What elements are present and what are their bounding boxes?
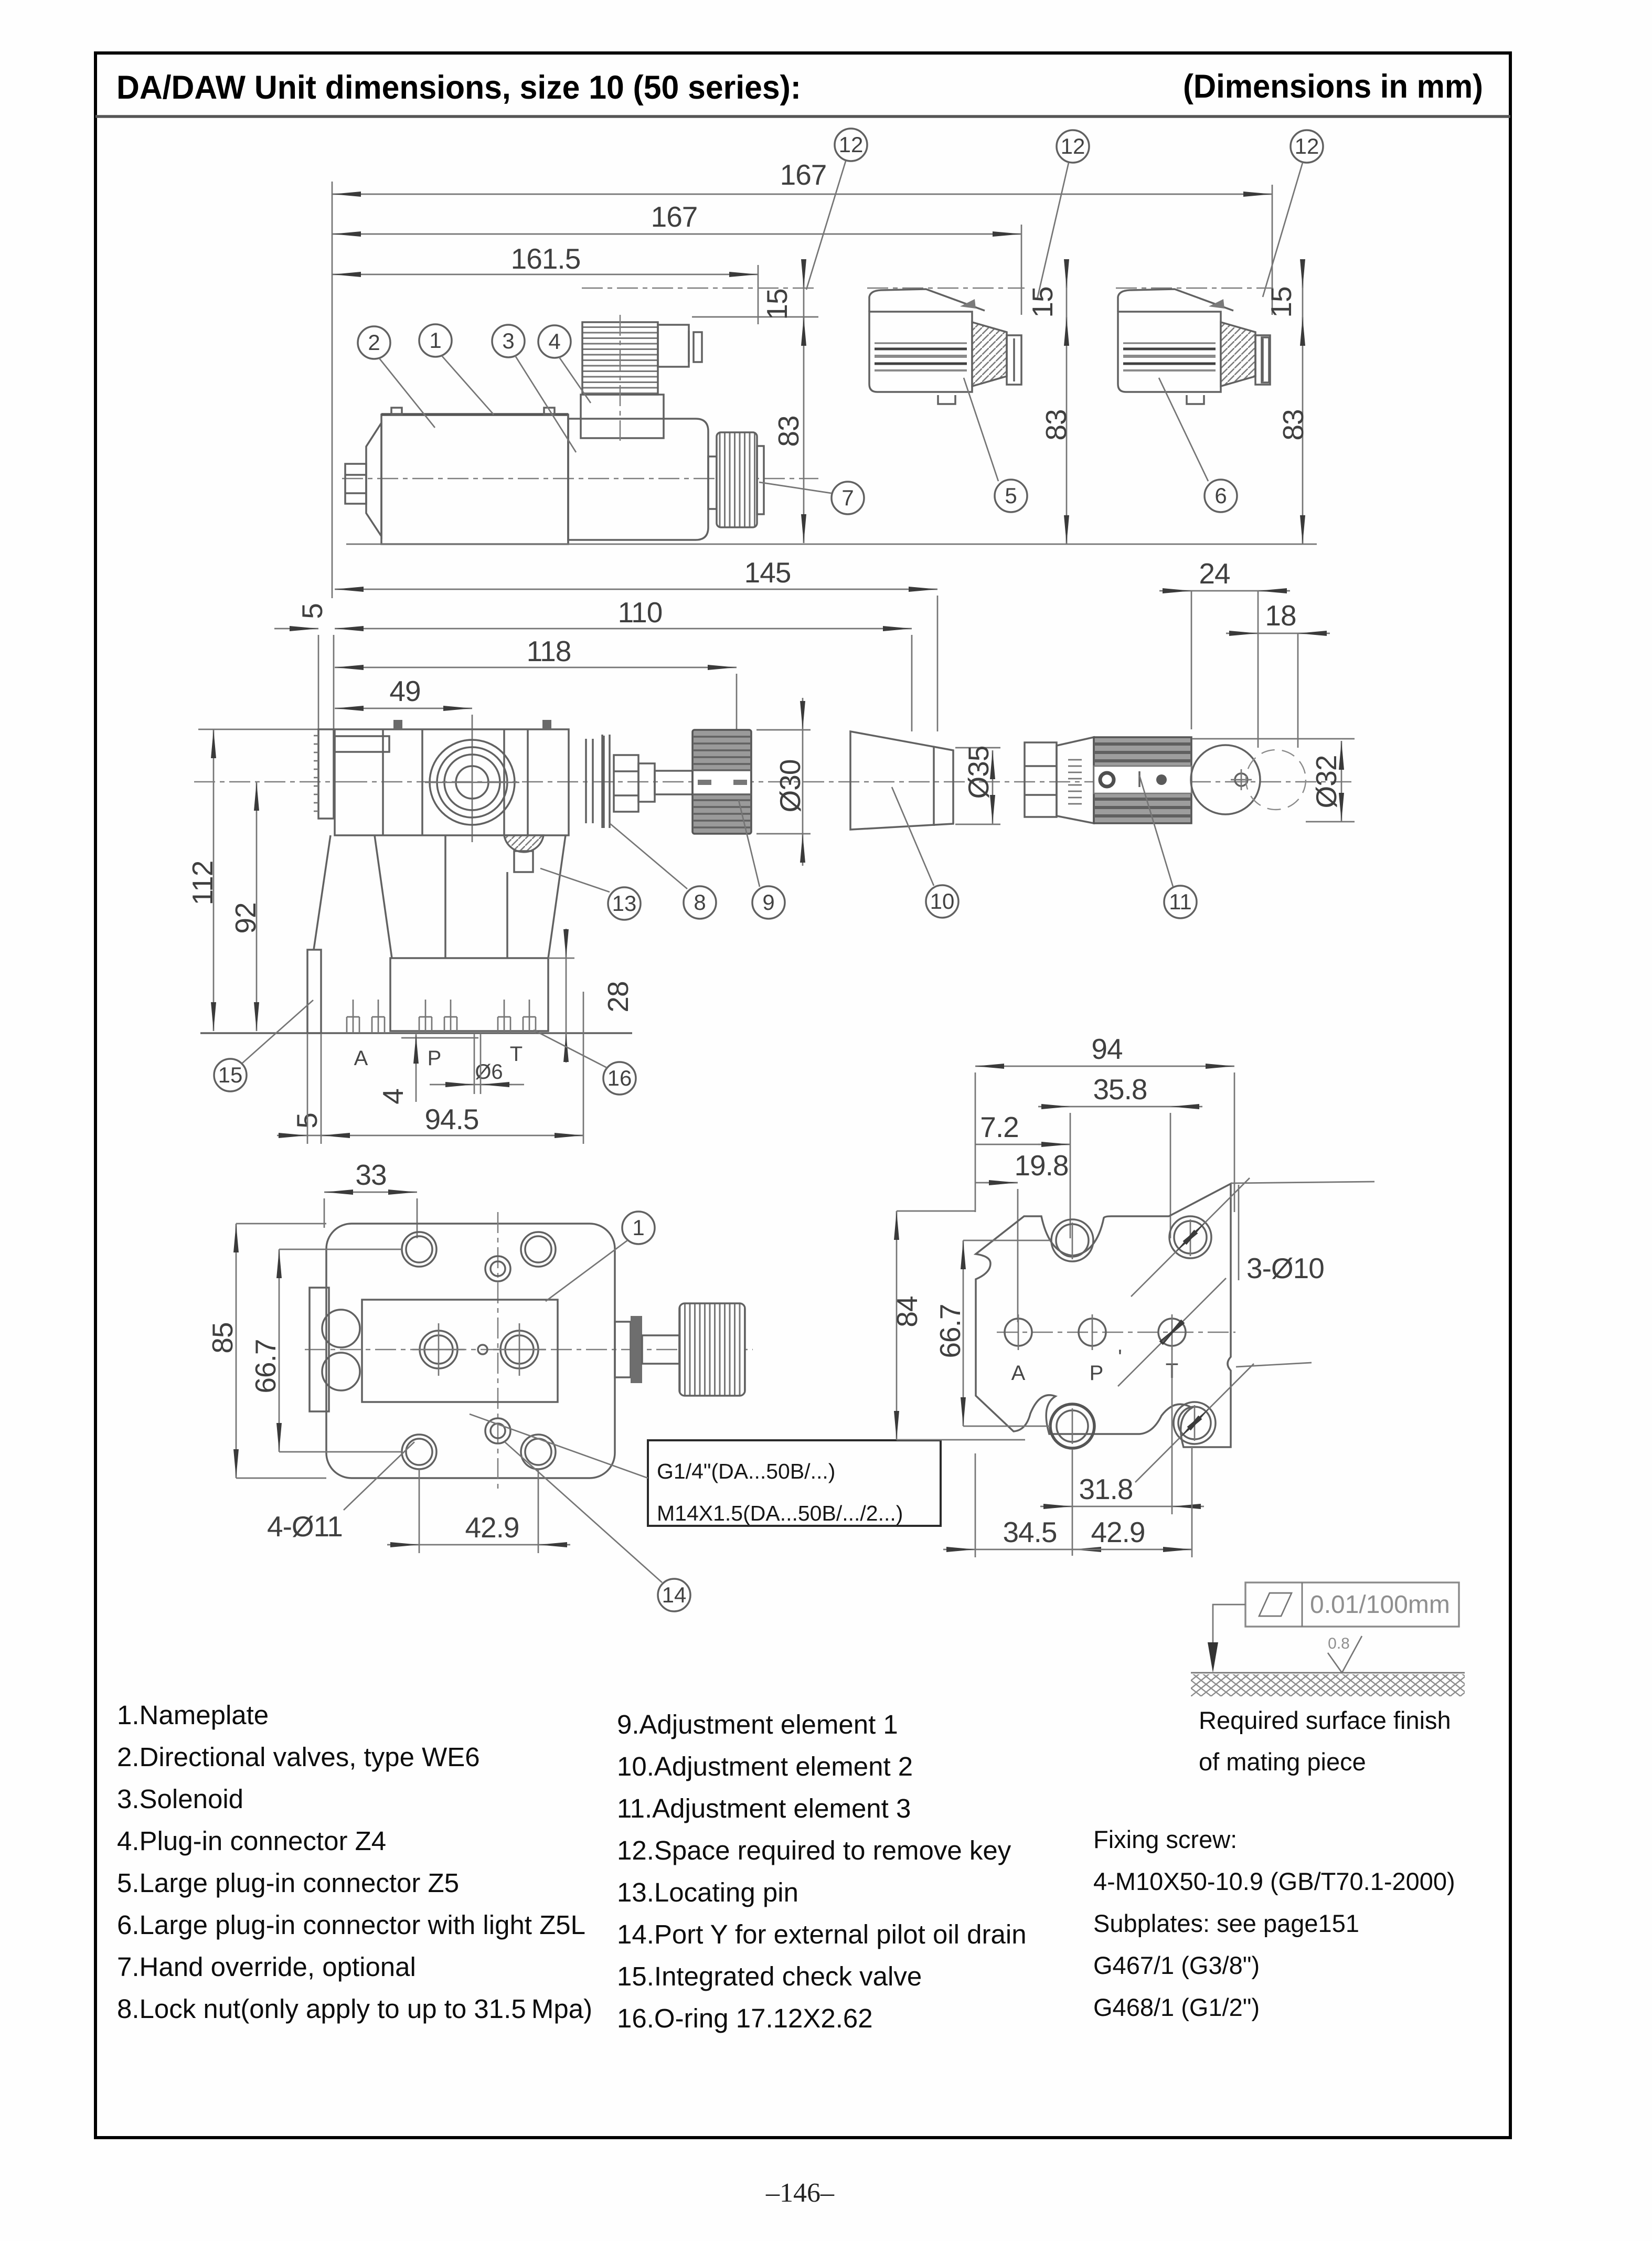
leader to surface [1213, 1605, 1245, 1642]
leader 12b [1037, 163, 1069, 299]
svg-text:4.Plug-in connector Z4: 4.Plug-in connector Z4 [117, 1826, 386, 1856]
dim diam32 [1341, 741, 1342, 822]
connector lid [1118, 289, 1233, 312]
dim 35.8 [1070, 1106, 1170, 1108]
svg-text:13.Locating pin: 13.Locating pin [617, 1877, 798, 1907]
nameplate rectangle (item 1) [362, 1300, 558, 1402]
flatness tolerance box [1245, 1582, 1459, 1627]
dim 85 [236, 1224, 237, 1478]
body top bolt marks [393, 720, 402, 729]
svg-text:7.2: 7.2 [980, 1111, 1018, 1143]
adjustment element 2 cone (item 10) [850, 731, 953, 830]
svg-text:92: 92 [229, 902, 262, 933]
main valve body [335, 729, 569, 835]
seal bar [631, 1316, 642, 1383]
dim 4 [415, 1034, 417, 1102]
balloon 2 [358, 326, 390, 359]
connector threaded cone [1221, 322, 1255, 386]
dim 28 [566, 958, 567, 1033]
body internal verticals [382, 729, 384, 835]
svg-text:3-Ø10: 3-Ø10 [1246, 1252, 1324, 1284]
check valve plate lower [307, 950, 321, 1033]
crosshair circles [420, 1331, 457, 1368]
lid solid line [692, 316, 818, 318]
extension line at 2425 [1272, 185, 1273, 315]
dim diam6 arrows [430, 1084, 524, 1086]
connector dash-dot top line [1116, 288, 1273, 289]
svg-text:G467/1 (G3/8"): G467/1 (G3/8") [1093, 1951, 1260, 1979]
connector lid [869, 289, 985, 312]
leader 12c [1263, 163, 1303, 297]
svg-text:15: 15 [761, 289, 793, 320]
dim 5 stub (check plate) [274, 628, 318, 630]
item11 knurled cylinder [1094, 737, 1191, 823]
svg-text:33: 33 [355, 1159, 386, 1191]
dim 33 [324, 1192, 417, 1193]
svg-text:5: 5 [1005, 483, 1017, 508]
svg-text:110: 110 [618, 596, 663, 629]
svg-text:12.Space required to remove ke: 12.Space required to remove key [617, 1835, 1011, 1865]
dim 24 [1191, 590, 1258, 592]
dim 15/83 for item5 [1066, 262, 1068, 544]
svg-text:0.01/100mm: 0.01/100mm [1310, 1591, 1450, 1619]
ext 49 right / boss vertical centerline [472, 715, 473, 842]
svg-text:4-Ø11: 4-Ø11 [267, 1510, 343, 1543]
horizontal centerline top view [305, 1349, 753, 1351]
dim 18 [1258, 633, 1298, 634]
svg-text:15.Integrated check valve: 15.Integrated check valve [617, 1961, 922, 1991]
bottom block [390, 958, 548, 1031]
lid dash line [582, 288, 818, 289]
vertical hole centerlines [1072, 1223, 1073, 1259]
connector main block [869, 312, 972, 392]
roughness symbol [1328, 1636, 1362, 1673]
svg-text:83: 83 [1277, 409, 1309, 440]
valve body (item 1/3) [568, 419, 708, 540]
dim 92 [256, 782, 258, 1031]
mounting baseline [200, 1032, 632, 1034]
connector lower block [581, 395, 664, 438]
svg-text:84: 84 [891, 1296, 923, 1327]
svg-text:12: 12 [1295, 134, 1319, 158]
connector end cap [1007, 335, 1021, 385]
svg-text:12: 12 [839, 132, 864, 157]
connector dash-dot top line [867, 288, 1025, 289]
connector threaded cone [972, 322, 1007, 386]
ext 118 right [736, 674, 738, 730]
dim 118 [335, 667, 737, 668]
mid small holes [485, 1256, 510, 1281]
svg-text:Required surface finish: Required surface finish [1199, 1706, 1451, 1734]
dim 167 upper [332, 194, 1272, 195]
svg-text:49: 49 [389, 675, 420, 707]
body to lower plate slant [314, 835, 331, 950]
svg-text:P: P [1090, 1362, 1104, 1385]
dim 84 [896, 1211, 898, 1440]
connector bottom tab [1187, 395, 1204, 404]
svg-text:83: 83 [772, 416, 805, 447]
neck to hand override [708, 456, 717, 509]
port ticks A [346, 1017, 348, 1033]
svg-text:5: 5 [296, 603, 328, 619]
svg-text:6: 6 [1214, 483, 1227, 508]
balloon 3 [492, 325, 525, 357]
subplate bolt holes 3-diam10 [1051, 1219, 1093, 1261]
svg-text:': ' [1118, 1346, 1122, 1369]
balloon 5 [995, 480, 1027, 512]
item11 dashed circle [1246, 750, 1306, 810]
svg-text:Subplates: see page151: Subplates: see page151 [1093, 1909, 1359, 1937]
extension line at 1947 [1021, 225, 1022, 315]
svg-text:13: 13 [612, 891, 637, 916]
ext line centerline left [194, 781, 346, 783]
dim 66.7 right [963, 1240, 964, 1426]
svg-text:G468/1 (G1/2"): G468/1 (G1/2") [1093, 1993, 1260, 2021]
adjustment element 1 knob (item 9) [692, 730, 751, 834]
connector cable gland [658, 325, 689, 367]
balloon 9 [752, 886, 785, 919]
3-diam10 leaders with arrows [1238, 1185, 1240, 1280]
svg-text:–146–: –146– [765, 2178, 835, 2208]
check plate extension lines [318, 635, 319, 819]
svg-text:2: 2 [368, 330, 380, 355]
dim 42.9 (subplate) [1072, 1549, 1192, 1550]
svg-text:18: 18 [1265, 599, 1296, 632]
svg-text:66.7: 66.7 [934, 1304, 966, 1358]
svg-text:1.Nameplate: 1.Nameplate [117, 1700, 269, 1730]
svg-text:4: 4 [548, 329, 560, 354]
svg-text:14.Port Y for external pilot o: 14.Port Y for external pilot oil drain [617, 1919, 1027, 1949]
balloon 11 [1164, 886, 1197, 918]
balloon 10 [926, 885, 958, 918]
svg-text:42.9: 42.9 [465, 1511, 519, 1544]
svg-text:11: 11 [1169, 889, 1192, 914]
dim 161.5 [332, 274, 758, 275]
svg-text:G1/4"(DA...50B/...): G1/4"(DA...50B/...) [657, 1459, 835, 1483]
svg-text:161.5: 161.5 [511, 242, 581, 275]
ext 110 right [911, 635, 913, 731]
solenoid top tabs [391, 408, 402, 415]
svg-text:11.Adjustment element 3: 11.Adjustment element 3 [617, 1793, 911, 1823]
dim 167 lower [332, 233, 1021, 235]
svg-text:3: 3 [502, 328, 514, 353]
corner leader lines [1231, 1182, 1374, 1183]
svg-text:19.8: 19.8 [1014, 1149, 1068, 1182]
stem [642, 1335, 679, 1364]
svg-text:A: A [1011, 1362, 1026, 1385]
leader 12a [806, 161, 846, 290]
A P T holes [997, 1332, 1235, 1333]
svg-text:94.5: 94.5 [424, 1103, 478, 1135]
balloon 6 [1205, 480, 1237, 512]
dim diam35 [992, 750, 994, 824]
svg-text:8.Lock nut(only apply to up to: 8.Lock nut(only apply to up to 31.5 Mpa) [117, 1994, 592, 2024]
centerline main valve axis [342, 478, 818, 480]
balloon 1 [419, 324, 452, 357]
svg-text:15: 15 [218, 1063, 243, 1087]
svg-text:Ø35: Ø35 [962, 746, 995, 799]
svg-text:118: 118 [527, 635, 571, 667]
svg-text:94: 94 [1091, 1033, 1122, 1065]
solenoid body (item 2) [381, 415, 568, 544]
balloon 12 c [1291, 130, 1323, 163]
central boss circles [430, 740, 515, 825]
svg-text:9: 9 [762, 890, 774, 915]
svg-text:3.Solenoid: 3.Solenoid [117, 1784, 243, 1814]
svg-text:8: 8 [694, 890, 706, 915]
svg-text:5.Large plug-in connector Z5: 5.Large plug-in connector Z5 [117, 1868, 459, 1898]
dim 94 [975, 1066, 1234, 1067]
locating pin (item 13) hatched [504, 835, 543, 852]
connector vertical centerline [620, 315, 621, 441]
svg-text:DA/DAW Unit dimensions, size 1: DA/DAW Unit dimensions, size 10 (50 seri… [116, 69, 801, 106]
svg-text:85: 85 [206, 1322, 239, 1353]
svg-text:167: 167 [780, 158, 827, 191]
svg-text:4-M10X50-10.9 (GB/T70.1-2000): 4-M10X50-10.9 (GB/T70.1-2000) [1093, 1867, 1455, 1895]
svg-text:35.8: 35.8 [1093, 1073, 1147, 1106]
svg-text:145: 145 [744, 556, 791, 589]
main centerline middle drawing [346, 781, 1353, 783]
seal face dark line [603, 736, 605, 828]
subplate outline [976, 1184, 1231, 1447]
svg-text:15: 15 [1026, 286, 1059, 317]
svg-text:Ø6: Ø6 [475, 1060, 503, 1084]
svg-text:Ø32: Ø32 [1310, 756, 1342, 809]
balloon 13 [608, 887, 641, 920]
svg-text:2.Directional valves, type WE6: 2.Directional valves, type WE6 [117, 1742, 480, 1772]
svg-text:16: 16 [607, 1066, 632, 1090]
crosshatch band [1191, 1674, 1465, 1696]
check valve plate upper (item 15) [318, 729, 334, 819]
connector end cap [1255, 335, 1270, 385]
svg-text:T: T [510, 1043, 523, 1066]
svg-text:12: 12 [1061, 134, 1085, 158]
item11 eye ring [1191, 745, 1260, 814]
dim 42.9 (top view) [419, 1544, 538, 1546]
svg-text:10.Adjustment element 2: 10.Adjustment element 2 [617, 1751, 913, 1781]
svg-text:14: 14 [662, 1582, 687, 1607]
adjustment stem [655, 771, 692, 794]
balloon 4 [538, 325, 571, 358]
top view body [326, 1224, 615, 1478]
svg-text:7.Hand override, optional: 7.Hand override, optional [117, 1952, 416, 1982]
dim 66.7 [279, 1249, 280, 1452]
balloon 14 [658, 1579, 690, 1611]
connector bottom tab [938, 395, 955, 404]
ext line top of body [198, 729, 336, 730]
dim 15/83 for item6 [1302, 262, 1304, 544]
svg-text:83: 83 [1040, 409, 1072, 440]
svg-text:16.O-ring 17.12X2.62: 16.O-ring 17.12X2.62 [617, 2003, 873, 2033]
balloon 15 [214, 1059, 247, 1091]
Z5L light flange [1262, 337, 1269, 383]
svg-text:66.7: 66.7 [249, 1339, 282, 1393]
baseline under top drawing [346, 544, 1317, 545]
left extension line [332, 182, 333, 598]
dim 7.2 [975, 1144, 1070, 1145]
left check valve housing [310, 1288, 329, 1411]
dim 49 [335, 708, 472, 709]
svg-text:10: 10 [930, 889, 955, 914]
parallelogram symbol [1259, 1593, 1292, 1616]
svg-text:34.5: 34.5 [1003, 1516, 1057, 1548]
right flange [615, 1322, 631, 1377]
dim 34.5 [975, 1549, 1072, 1550]
balloon 8 [684, 886, 716, 919]
svg-text:P: P [428, 1047, 442, 1070]
balloon 12 b [1057, 130, 1089, 163]
dim 19.8 [975, 1182, 1018, 1184]
svg-text:1: 1 [632, 1215, 644, 1240]
svg-text:28: 28 [602, 981, 634, 1012]
page frame [95, 53, 1510, 2138]
dim 110 [335, 628, 912, 630]
svg-text:M14X1.5(DA...50B/.../2...): M14X1.5(DA...50B/.../2...) [657, 1501, 903, 1525]
body top-left step [335, 736, 389, 752]
svg-text:0.8: 0.8 [1328, 1635, 1350, 1652]
svg-text:4: 4 [377, 1089, 409, 1104]
mounting flange verticals [585, 739, 587, 823]
neck trapezoid [375, 835, 392, 958]
svg-text:1: 1 [429, 328, 441, 353]
svg-text:A: A [354, 1047, 368, 1070]
hand override knob (item 7) knurled [717, 432, 757, 527]
svg-text:Ø30: Ø30 [774, 760, 806, 813]
lock nut (item 8) [614, 755, 638, 812]
plug-in connector Z4 (item 4) ribbed [582, 322, 658, 395]
dim 94.5 and 5 lower [283, 1135, 583, 1137]
balloon 12 a [835, 129, 867, 161]
mating surface line [1191, 1672, 1465, 1674]
dim 15 / 83 main view [803, 262, 805, 543]
item11 screw window [1094, 766, 1191, 793]
balloon 7 [832, 482, 864, 514]
svg-text:(Dimensions in mm): (Dimensions in mm) [1183, 68, 1483, 105]
vertical centerline top view [497, 1212, 499, 1490]
ext 145 right [937, 596, 939, 731]
extension line at 1445 [758, 265, 759, 324]
connector main block [1118, 312, 1221, 392]
svg-text:15: 15 [1265, 286, 1297, 317]
hand override left cap hex [345, 464, 366, 504]
svg-text:7: 7 [841, 485, 854, 510]
svg-text:of mating piece: of mating piece [1199, 1748, 1366, 1776]
dim 31.8 [1072, 1506, 1172, 1507]
svg-text:Fixing screw:: Fixing screw: [1093, 1825, 1237, 1853]
header separator [95, 115, 1510, 118]
svg-text:167: 167 [651, 200, 698, 233]
balloon 1 (top view) [622, 1212, 655, 1244]
corner bolt holes 4-diam11 [402, 1232, 436, 1267]
dim diam30 [802, 730, 804, 834]
svg-text:6.Large plug-in connector with: 6.Large plug-in connector with light Z5L [117, 1910, 585, 1940]
P port counterbore floor line [401, 1037, 478, 1039]
svg-text:31.8: 31.8 [1079, 1473, 1133, 1505]
svg-text:42.9: 42.9 [1091, 1516, 1145, 1548]
item11 graduated taper [1057, 737, 1094, 823]
dim 112 [213, 729, 215, 1031]
dim 145 [335, 589, 937, 590]
svg-text:9.Adjustment element 1: 9.Adjustment element 1 [617, 1709, 898, 1739]
svg-text:112: 112 [186, 861, 219, 906]
subplate extension lines [975, 1072, 976, 1212]
balloon 16 [603, 1062, 636, 1095]
port note box [648, 1440, 941, 1526]
left cap cone [366, 423, 381, 536]
item11 hex nut [1025, 742, 1057, 817]
adjustment knob top view [679, 1303, 745, 1396]
svg-text:24: 24 [1199, 557, 1230, 590]
